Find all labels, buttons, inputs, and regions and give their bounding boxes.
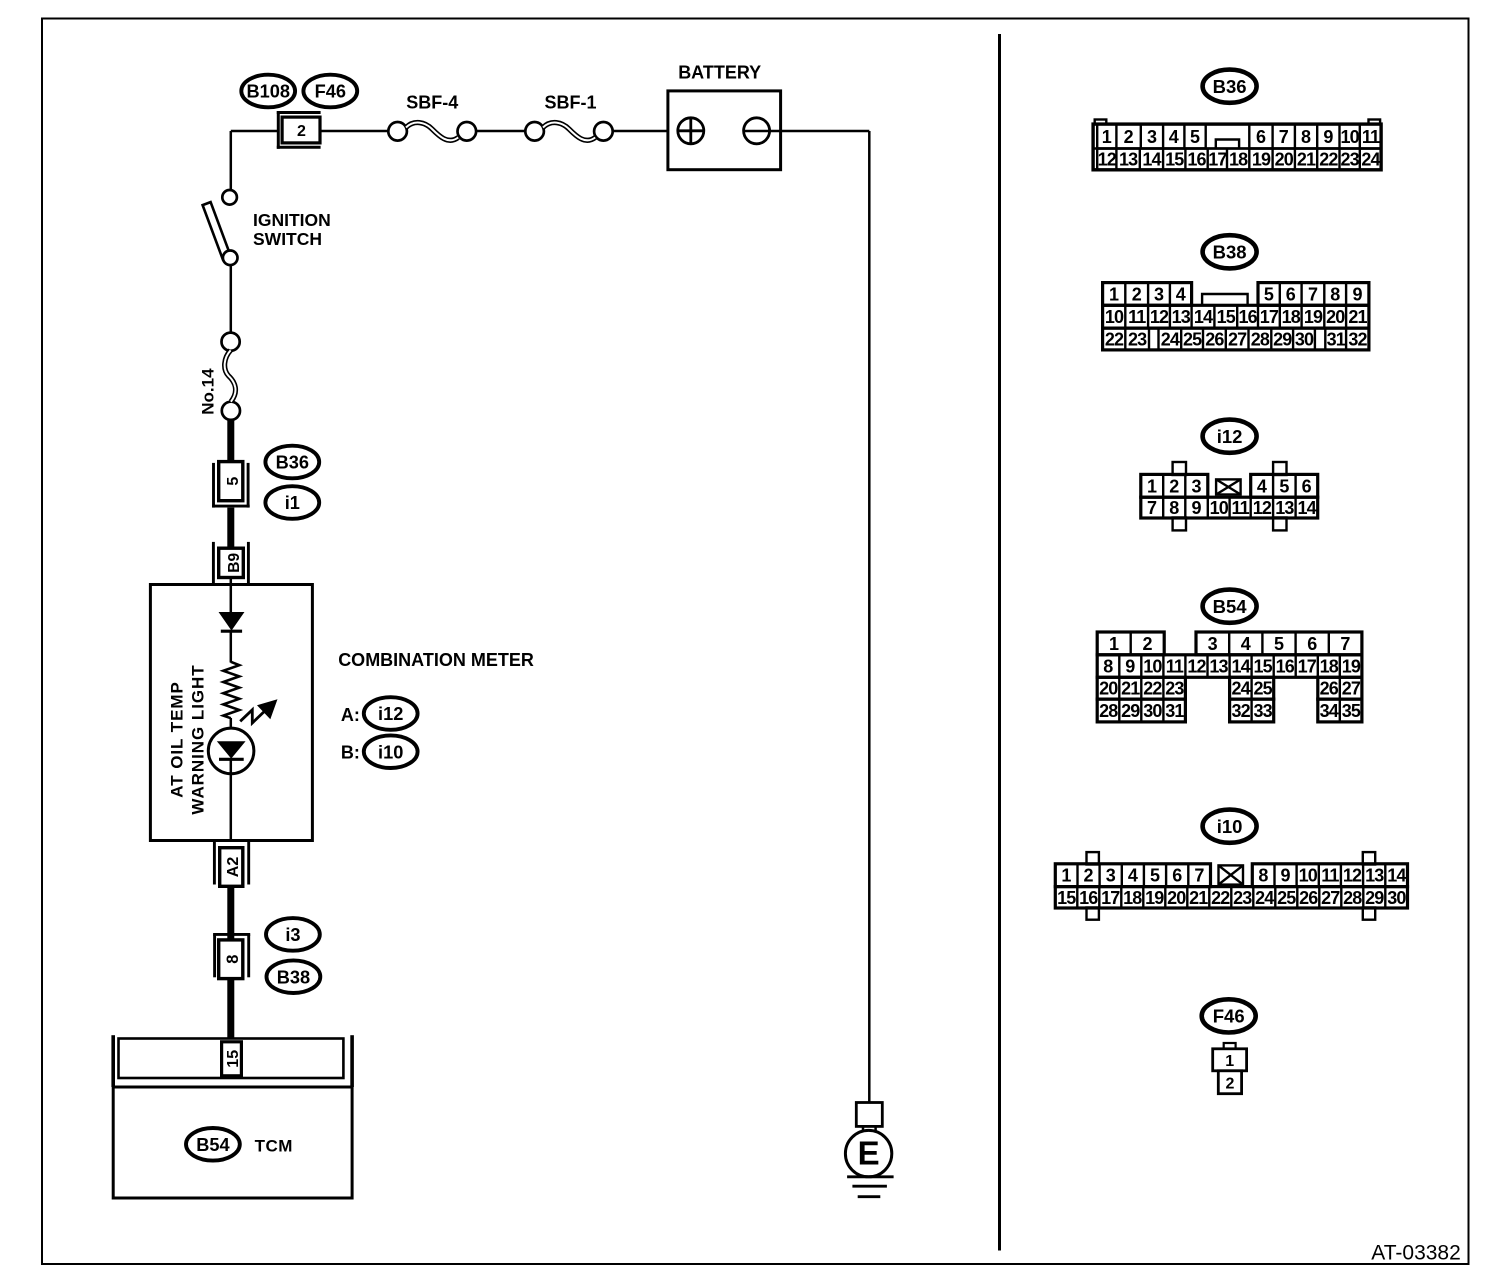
svg-text:5: 5 bbox=[1264, 284, 1274, 304]
svg-text:AT-03382: AT-03382 bbox=[1371, 1242, 1461, 1265]
svg-text:22: 22 bbox=[1319, 150, 1338, 170]
svg-text:B108: B108 bbox=[246, 82, 289, 102]
B36 pins 12-24 bbox=[1097, 149, 1381, 170]
svg-text:i1: i1 bbox=[285, 493, 300, 513]
svg-text:22: 22 bbox=[1143, 679, 1162, 699]
svg-text:30: 30 bbox=[1143, 701, 1162, 721]
wire (thick): A2 to connector 8 bbox=[227, 886, 234, 940]
svg-text:AT OIL TEMP: AT OIL TEMP bbox=[168, 681, 187, 798]
svg-text:2: 2 bbox=[297, 123, 306, 140]
divider line between schematic and connector views bbox=[998, 34, 1001, 1251]
svg-text:4: 4 bbox=[1257, 476, 1267, 496]
svg-text:16: 16 bbox=[1238, 307, 1257, 327]
fuse SBF-4 bbox=[388, 93, 476, 141]
svg-text:12: 12 bbox=[1150, 307, 1169, 327]
svg-text:A:: A: bbox=[341, 705, 360, 725]
B54 pins 8-19 bbox=[1097, 655, 1362, 678]
svg-text:6: 6 bbox=[1302, 476, 1312, 496]
svg-text:30: 30 bbox=[1387, 888, 1406, 908]
svg-text:13: 13 bbox=[1172, 307, 1191, 327]
svg-text:2: 2 bbox=[1124, 127, 1134, 147]
i10 pins 8-14 bbox=[1252, 864, 1407, 887]
svg-text:9: 9 bbox=[1192, 498, 1202, 518]
svg-text:12: 12 bbox=[1098, 150, 1117, 170]
svg-text:10: 10 bbox=[1210, 498, 1229, 518]
connector tag i12 bbox=[364, 697, 418, 730]
svg-text:4: 4 bbox=[1176, 284, 1186, 304]
svg-text:BATTERY: BATTERY bbox=[678, 63, 761, 83]
svg-text:5: 5 bbox=[1190, 127, 1200, 147]
connector tag B54 (TCM) bbox=[186, 1128, 240, 1161]
svg-text:8: 8 bbox=[1169, 498, 1179, 518]
svg-text:24: 24 bbox=[1161, 329, 1180, 349]
connector A2 (combination meter) bbox=[214, 842, 248, 887]
svg-text:14: 14 bbox=[1298, 498, 1317, 518]
svg-text:18: 18 bbox=[1282, 307, 1301, 327]
svg-text:2: 2 bbox=[1142, 634, 1152, 654]
ground E bbox=[845, 1103, 893, 1197]
wire: diode to resistor bbox=[230, 631, 233, 663]
svg-text:SBF-1: SBF-1 bbox=[544, 93, 596, 113]
battery bbox=[668, 63, 781, 170]
svg-text:11: 11 bbox=[1166, 657, 1184, 677]
svg-text:8: 8 bbox=[1258, 866, 1268, 886]
svg-text:B54: B54 bbox=[196, 1135, 230, 1155]
svg-text:29: 29 bbox=[1273, 329, 1292, 349]
svg-text:14: 14 bbox=[1194, 307, 1213, 327]
fuse No.14 bbox=[222, 333, 240, 420]
AT OIL TEMP warning lamp (LED) bbox=[208, 728, 254, 774]
svg-text:21: 21 bbox=[1121, 679, 1140, 699]
svg-text:10: 10 bbox=[1105, 307, 1124, 327]
wire (thick): fuse No.14 to connector 5 bbox=[227, 419, 234, 463]
B38 pins 10-21 bbox=[1103, 305, 1369, 328]
connector tag F46 bbox=[303, 75, 357, 108]
svg-text:27: 27 bbox=[1321, 888, 1340, 908]
svg-text:19: 19 bbox=[1145, 888, 1164, 908]
fuse SBF-1 bbox=[525, 93, 612, 141]
svg-text:No.14: No.14 bbox=[198, 368, 217, 415]
wire: B9 to diode inside meter bbox=[230, 578, 233, 614]
svg-text:11: 11 bbox=[1321, 866, 1339, 886]
svg-text:1: 1 bbox=[1225, 1053, 1234, 1070]
B54 pins 28-35 bbox=[1097, 699, 1185, 722]
i10 pins 15-30 bbox=[1055, 887, 1407, 908]
svg-text:8: 8 bbox=[1330, 284, 1340, 304]
connector view tag B54 bbox=[1203, 590, 1257, 623]
svg-text:7: 7 bbox=[1194, 866, 1204, 886]
connector view tag i12 bbox=[1203, 420, 1257, 453]
svg-text:8: 8 bbox=[224, 955, 242, 964]
svg-text:4: 4 bbox=[1241, 634, 1251, 654]
svg-text:6: 6 bbox=[1172, 866, 1182, 886]
svg-text:SBF-4: SBF-4 bbox=[406, 93, 458, 113]
svg-text:25: 25 bbox=[1277, 888, 1296, 908]
svg-text:F46: F46 bbox=[1213, 1006, 1245, 1027]
svg-text:20: 20 bbox=[1167, 888, 1186, 908]
svg-text:13: 13 bbox=[1119, 150, 1138, 170]
svg-text:14: 14 bbox=[1142, 150, 1161, 170]
svg-text:11: 11 bbox=[1232, 498, 1250, 518]
svg-text:i12: i12 bbox=[378, 704, 403, 724]
wire: resistor to warning lamp bbox=[230, 718, 233, 729]
svg-text:14: 14 bbox=[1387, 866, 1406, 886]
i10 pins 1-7 bbox=[1055, 864, 1210, 887]
svg-text:i12: i12 bbox=[1217, 426, 1243, 447]
svg-text:i10: i10 bbox=[378, 742, 403, 762]
svg-text:3: 3 bbox=[1106, 866, 1116, 886]
svg-text:23: 23 bbox=[1341, 150, 1360, 170]
TCM connector strip (B54 pin 15) bbox=[113, 1035, 352, 1087]
svg-text:E: E bbox=[858, 1135, 880, 1172]
svg-text:12: 12 bbox=[1187, 657, 1206, 677]
svg-text:21: 21 bbox=[1189, 888, 1208, 908]
svg-text:5: 5 bbox=[1274, 634, 1284, 654]
ignition switch bbox=[203, 190, 331, 265]
svg-text:F46: F46 bbox=[315, 82, 346, 102]
svg-text:1: 1 bbox=[1102, 127, 1112, 147]
svg-text:3: 3 bbox=[1147, 127, 1157, 147]
svg-text:20: 20 bbox=[1326, 307, 1345, 327]
svg-text:7: 7 bbox=[1308, 284, 1318, 304]
B54 pins 20-27 bbox=[1097, 677, 1185, 699]
connector B36/i1 pin 5 bbox=[212, 462, 250, 508]
svg-text:29: 29 bbox=[1365, 888, 1384, 908]
svg-text:WARNING LIGHT: WARNING LIGHT bbox=[189, 664, 208, 814]
resistor (variable, warning light driver) bbox=[223, 662, 239, 718]
svg-text:15: 15 bbox=[1254, 657, 1273, 677]
svg-text:1: 1 bbox=[1109, 284, 1119, 304]
svg-text:18: 18 bbox=[1320, 657, 1339, 677]
svg-text:15: 15 bbox=[1165, 150, 1184, 170]
svg-text:2: 2 bbox=[1084, 866, 1094, 886]
svg-text:12: 12 bbox=[1343, 866, 1362, 886]
wire: ignition switch branch to connector B108/F46 bbox=[231, 130, 278, 133]
svg-text:26: 26 bbox=[1299, 888, 1318, 908]
svg-text:9: 9 bbox=[1281, 866, 1291, 886]
svg-text:32: 32 bbox=[1231, 701, 1250, 721]
svg-text:11: 11 bbox=[1362, 127, 1380, 147]
connector tag i10 bbox=[364, 735, 418, 768]
connector i3/B38 pin 8 bbox=[213, 934, 250, 978]
svg-text:31: 31 bbox=[1165, 701, 1184, 721]
svg-text:15: 15 bbox=[1057, 888, 1076, 908]
connector B36 pinout bbox=[1093, 120, 1381, 170]
svg-text:20: 20 bbox=[1099, 679, 1118, 699]
svg-text:21: 21 bbox=[1348, 307, 1367, 327]
B38 pins 1-9 bbox=[1103, 283, 1192, 306]
svg-text:10: 10 bbox=[1299, 866, 1318, 886]
svg-text:28: 28 bbox=[1099, 701, 1118, 721]
svg-text:10: 10 bbox=[1341, 127, 1360, 147]
svg-text:7: 7 bbox=[1147, 498, 1157, 518]
svg-text:26: 26 bbox=[1205, 329, 1224, 349]
svg-text:33: 33 bbox=[1254, 701, 1273, 721]
svg-text:11: 11 bbox=[1128, 307, 1146, 327]
wire: SBF-1 to battery bbox=[613, 130, 668, 133]
svg-text:23: 23 bbox=[1233, 888, 1252, 908]
svg-text:B54: B54 bbox=[1213, 596, 1248, 617]
svg-text:6: 6 bbox=[1307, 634, 1317, 654]
svg-text:9: 9 bbox=[1352, 284, 1362, 304]
svg-text:17: 17 bbox=[1101, 888, 1120, 908]
svg-text:B36: B36 bbox=[276, 453, 309, 473]
connector view tag F46 bbox=[1202, 999, 1256, 1032]
wire: connector 2 to SBF-4 bbox=[321, 130, 389, 133]
svg-text:24: 24 bbox=[1361, 150, 1380, 170]
svg-text:17: 17 bbox=[1260, 307, 1279, 327]
svg-text:i3: i3 bbox=[285, 925, 300, 945]
svg-text:15: 15 bbox=[1217, 307, 1236, 327]
svg-text:29: 29 bbox=[1121, 701, 1140, 721]
wire: right vertical run to ground E bbox=[868, 131, 871, 1103]
connector i10 pinout bbox=[1055, 852, 1407, 920]
svg-text:34: 34 bbox=[1320, 701, 1339, 721]
svg-text:31: 31 bbox=[1327, 329, 1346, 349]
wire (thick): connector 5 to connector B9 bbox=[227, 508, 234, 549]
svg-text:6: 6 bbox=[1256, 127, 1266, 147]
svg-text:B38: B38 bbox=[277, 967, 310, 987]
wire: lamp to connector A2 bbox=[230, 760, 233, 841]
svg-text:22: 22 bbox=[1211, 888, 1230, 908]
svg-text:4: 4 bbox=[1128, 866, 1138, 886]
svg-text:17: 17 bbox=[1298, 657, 1317, 677]
diode (combination meter) bbox=[220, 613, 244, 632]
connector view tag B36 bbox=[1203, 70, 1257, 103]
svg-text:B9: B9 bbox=[226, 553, 243, 573]
TCM box bbox=[113, 1087, 352, 1198]
connector B108/F46 (pin 2) bbox=[277, 111, 321, 149]
svg-text:13: 13 bbox=[1209, 657, 1228, 677]
wire: ignition switch to fuse No.14 bbox=[230, 265, 233, 332]
svg-text:2: 2 bbox=[1226, 1076, 1235, 1093]
combination meter box bbox=[150, 585, 312, 841]
svg-text:27: 27 bbox=[1228, 329, 1247, 349]
svg-text:3: 3 bbox=[1192, 476, 1202, 496]
svg-text:3: 3 bbox=[1154, 284, 1164, 304]
svg-text:IGNITION: IGNITION bbox=[253, 210, 331, 230]
svg-text:7: 7 bbox=[1340, 634, 1350, 654]
connector B54 pinout bbox=[1097, 632, 1362, 722]
svg-text:4: 4 bbox=[1169, 127, 1179, 147]
svg-text:5: 5 bbox=[1150, 866, 1160, 886]
i12 key bbox=[1216, 479, 1241, 494]
wire: battery negative terminal to ground branch bbox=[744, 130, 870, 133]
svg-text:24: 24 bbox=[1255, 888, 1274, 908]
svg-text:COMBINATION METER: COMBINATION METER bbox=[338, 650, 534, 670]
svg-text:16: 16 bbox=[1187, 150, 1206, 170]
svg-text:B38: B38 bbox=[1213, 241, 1247, 262]
i10 key bbox=[1219, 865, 1244, 884]
svg-text:14: 14 bbox=[1231, 657, 1250, 677]
svg-text:9: 9 bbox=[1125, 657, 1135, 677]
connector tag B108 bbox=[241, 75, 295, 108]
svg-text:35: 35 bbox=[1342, 701, 1361, 721]
variable arrow bbox=[240, 701, 275, 723]
svg-text:1: 1 bbox=[1061, 866, 1071, 886]
svg-text:32: 32 bbox=[1348, 329, 1367, 349]
connector tag B36 bbox=[265, 446, 319, 479]
svg-text:2: 2 bbox=[1132, 284, 1142, 304]
connector tag i1 bbox=[265, 486, 319, 519]
svg-text:10: 10 bbox=[1143, 657, 1162, 677]
svg-text:3: 3 bbox=[1208, 634, 1218, 654]
svg-text:19: 19 bbox=[1252, 150, 1271, 170]
connector view tag i10 bbox=[1203, 810, 1257, 843]
svg-text:28: 28 bbox=[1251, 329, 1270, 349]
wire (thick): connector 8 to TCM bbox=[227, 979, 234, 1040]
svg-text:15: 15 bbox=[225, 1050, 242, 1068]
svg-text:9: 9 bbox=[1323, 127, 1333, 147]
svg-text:23: 23 bbox=[1128, 329, 1147, 349]
connector view tag B38 bbox=[1203, 235, 1257, 268]
B54 pins 1-7 bbox=[1097, 632, 1164, 655]
connector F46 pinout bbox=[1213, 1043, 1247, 1094]
connector B9 (combination meter) bbox=[213, 542, 248, 584]
svg-text:25: 25 bbox=[1254, 679, 1273, 699]
svg-text:24: 24 bbox=[1231, 679, 1250, 699]
i12 pins 7-14 bbox=[1141, 497, 1318, 518]
svg-text:13: 13 bbox=[1275, 498, 1294, 518]
svg-text:SWITCH: SWITCH bbox=[253, 229, 322, 249]
svg-text:19: 19 bbox=[1342, 657, 1361, 677]
svg-text:TCM: TCM bbox=[255, 1137, 293, 1156]
svg-text:18: 18 bbox=[1123, 888, 1142, 908]
svg-text:16: 16 bbox=[1079, 888, 1098, 908]
svg-text:2: 2 bbox=[1169, 476, 1179, 496]
svg-text:A2: A2 bbox=[225, 857, 242, 878]
svg-text:20: 20 bbox=[1275, 150, 1294, 170]
label AT OIL TEMP WARNING LIGHT bbox=[168, 664, 208, 814]
svg-text:21: 21 bbox=[1297, 150, 1316, 170]
fuse label No.14 bbox=[198, 368, 217, 415]
svg-text:1: 1 bbox=[1147, 476, 1157, 496]
svg-text:22: 22 bbox=[1105, 329, 1124, 349]
svg-text:i10: i10 bbox=[1217, 816, 1243, 837]
svg-text:1: 1 bbox=[1109, 634, 1119, 654]
i12 pins 1-6 bbox=[1141, 474, 1208, 497]
svg-text:7: 7 bbox=[1279, 127, 1289, 147]
svg-text:27: 27 bbox=[1342, 679, 1361, 699]
connector tag B38 bbox=[267, 960, 321, 993]
wire: to ignition switch bbox=[230, 131, 233, 190]
svg-text:6: 6 bbox=[1286, 284, 1296, 304]
svg-text:28: 28 bbox=[1343, 888, 1362, 908]
svg-text:5: 5 bbox=[1279, 476, 1289, 496]
wire: SBF-4 to SBF-1 bbox=[476, 130, 525, 133]
svg-text:8: 8 bbox=[1103, 657, 1113, 677]
svg-text:17: 17 bbox=[1208, 150, 1227, 170]
B38 pins 22-32 bbox=[1103, 328, 1369, 350]
svg-text:5: 5 bbox=[225, 477, 242, 486]
connector i12 pinout bbox=[1141, 462, 1318, 530]
B36 pins 1-11 bbox=[1097, 124, 1206, 148]
svg-text:B36: B36 bbox=[1213, 76, 1247, 97]
svg-text:26: 26 bbox=[1320, 679, 1339, 699]
svg-text:B:: B: bbox=[341, 743, 360, 763]
svg-text:23: 23 bbox=[1165, 679, 1184, 699]
connector tag i3 bbox=[266, 918, 320, 951]
connector B38 pinout bbox=[1103, 283, 1369, 350]
svg-text:30: 30 bbox=[1295, 329, 1314, 349]
svg-text:25: 25 bbox=[1183, 329, 1202, 349]
svg-text:12: 12 bbox=[1253, 498, 1272, 518]
svg-text:19: 19 bbox=[1304, 307, 1323, 327]
svg-text:8: 8 bbox=[1301, 127, 1311, 147]
svg-text:13: 13 bbox=[1365, 866, 1384, 886]
svg-text:16: 16 bbox=[1276, 657, 1295, 677]
svg-text:18: 18 bbox=[1229, 150, 1248, 170]
